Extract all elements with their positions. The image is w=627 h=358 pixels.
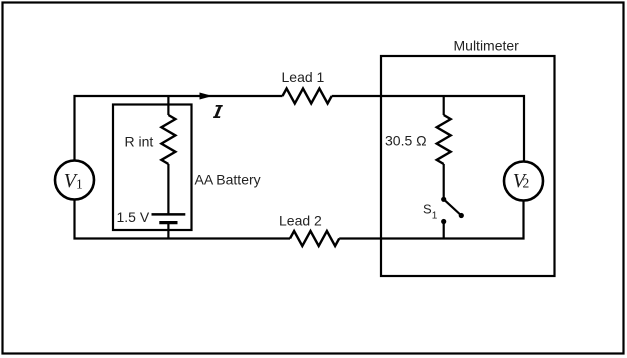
svg-text:1: 1 <box>432 211 438 222</box>
svg-text:Lead 2: Lead 2 <box>279 213 322 229</box>
svg-text:2: 2 <box>523 176 530 191</box>
wire: bottom rail right segment (Lead 2 to V2 riser) <box>339 201 523 239</box>
svg-text:S: S <box>423 202 432 217</box>
current arrow I <box>200 93 213 100</box>
label I (current) <box>213 105 223 118</box>
battery 1.5 V (cell symbol) <box>152 214 186 222</box>
label S1 <box>423 202 438 222</box>
svg-text:Multimeter: Multimeter <box>454 38 520 54</box>
voltmeter V1 <box>55 161 94 200</box>
svg-text:30.5 Ω: 30.5 Ω <box>385 133 427 149</box>
wire: top rail right segment (Lead 1 to V2 drop) <box>332 96 524 162</box>
wire: top rail to R int <box>167 96 169 115</box>
svg-text:1.5 V: 1.5 V <box>117 209 150 225</box>
resistor Lead 2 <box>290 231 339 246</box>
wire: top rail left segment (V1 top corner to Lead 1) <box>75 96 283 160</box>
resistor Lead 1 <box>283 89 332 104</box>
resistor R int <box>161 115 175 164</box>
switch S1 (open SPST) <box>441 197 464 224</box>
svg-text:1: 1 <box>76 177 83 192</box>
wire: 30.5 ohm resistor to switch S1 <box>443 164 445 197</box>
wire: battery to bottom rail <box>167 223 169 239</box>
svg-text:R int: R int <box>125 134 154 150</box>
svg-text:AA Battery: AA Battery <box>195 172 261 188</box>
svg-text:Lead 1: Lead 1 <box>282 69 325 85</box>
voltmeter V2 <box>504 162 543 201</box>
wire: switch S1 to bottom rail <box>443 222 445 239</box>
resistor 30.5 ohm <box>437 115 451 164</box>
AA battery enclosure box <box>113 105 192 231</box>
wire: R int to battery <box>167 164 169 214</box>
wire: V1 bottom to bottom rail <box>75 200 291 239</box>
multimeter enclosure box <box>381 56 555 276</box>
wire: top rail junction to 30.5 ohm resistor <box>443 96 445 115</box>
